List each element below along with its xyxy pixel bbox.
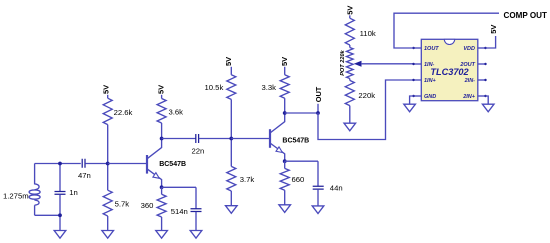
svg-text:2OUT: 2OUT [459,62,475,68]
power 5V (VDD) [489,25,498,34]
wire GND pin [410,96,414,104]
svg-text:COMP OUT: COMP OUT [504,11,548,20]
svg-text:POT 220k: POT 220k [340,49,346,75]
svg-text:OUT: OUT [314,86,323,102]
pin 1OUT [424,46,439,52]
wire input top node [35,163,81,165]
power 5V (3.6k) [156,85,165,94]
wire bottom-left node [35,214,60,216]
wire Q2 emitter to 44n [285,160,318,162]
svg-text:5V: 5V [489,25,498,34]
capacitor 1n [55,164,66,231]
svg-text:TLC3702: TLC3702 [430,67,469,77]
label 660 [292,175,305,184]
ground (2IN+) [482,104,494,112]
label 44n [330,184,343,193]
pin 2IN- [464,78,476,84]
svg-text:1IN+: 1IN+ [424,78,437,84]
pin VDD [463,46,475,52]
svg-text:22n: 22n [192,147,205,156]
svg-text:5V: 5V [102,85,111,94]
pin GND [424,94,436,100]
pin 1IN- [424,62,435,68]
svg-text:2IN-: 2IN- [464,78,476,84]
label 22n [192,147,205,156]
label 360 [141,201,154,210]
resistor 360 [157,187,166,230]
capacitor 22n [196,134,232,143]
resistor 3.6k [157,95,166,139]
power 5V (22.6k) [102,85,111,94]
junction base node 1 [106,162,110,166]
label 514n [171,207,188,216]
resistor 110k [345,15,354,47]
svg-text:GND: GND [424,94,436,100]
pin 1IN+ [424,78,437,84]
svg-text:47n: 47n [78,171,91,180]
junction OUT [316,111,320,115]
label 110k [360,29,376,38]
wire 2IN+ pin [486,96,489,104]
resistor 10.5k [227,67,236,139]
ground (GND pin) [404,104,416,112]
svg-text:2IN+: 2IN+ [462,94,476,100]
resistor 3.7k [227,139,236,206]
svg-text:22.6k: 22.6k [114,108,133,117]
power 5V (pot) [345,6,354,15]
svg-text:1IN-: 1IN- [424,62,435,68]
junction base node 2 [229,137,233,141]
svg-text:220k: 220k [358,91,375,100]
svg-text:1OUT: 1OUT [424,46,439,52]
label 3.3k [262,83,277,92]
svg-text:5V: 5V [156,85,165,94]
wire Q1 collector to 22n [162,138,196,140]
resistor 660 [280,161,289,205]
ground (360) [156,231,168,239]
resistor 22.6k [103,95,112,164]
svg-text:VDD: VDD [463,46,475,52]
svg-text:5V: 5V [224,57,233,66]
junction Q1 collector [160,137,164,141]
svg-text:3.3k: 3.3k [262,83,277,92]
pin 2OUT [459,62,475,68]
svg-text:110k: 110k [360,29,376,38]
resistor 3.3k [280,67,289,113]
junction Q2 emitter [283,159,287,163]
ground (pot) [344,123,356,131]
label 1n [69,188,78,197]
label 1.275m [3,191,29,200]
transistor Q2 BC547B [270,113,285,161]
wire Q1 emitter to 514n [162,186,196,188]
node OUT [314,86,323,113]
svg-text:BC547B: BC547B [282,138,309,145]
svg-text:1.275m: 1.275m [3,191,29,200]
op-amp U1 TLC3702 [412,39,486,100]
power 5V (10.5k) [224,57,233,66]
label 5.7k [115,200,130,209]
svg-text:44n: 44n [330,184,343,193]
transistor Q1 BC547B [147,139,162,188]
svg-text:5V: 5V [345,6,354,15]
svg-text:1n: 1n [69,188,78,197]
wire to Q1 base [108,163,147,165]
svg-text:BC547B: BC547B [159,161,186,168]
power 5V (3.3k) [280,57,289,66]
label TLC3702 [430,67,469,77]
ground (660) [279,205,291,213]
inductor 1.275m [29,164,40,216]
wire to Q2 base [231,138,270,140]
label POT 220k [340,49,346,75]
label 10.5k [205,83,224,92]
ground (tank) [54,231,66,239]
label 22.6k [114,108,133,117]
capacitor 47n [82,159,108,168]
node COMP OUT [504,11,548,20]
label 3.6k [169,108,184,117]
pin 2IN+ [462,94,476,100]
resistor 220k [345,79,354,124]
svg-text:360: 360 [141,201,154,210]
ground (514n) [190,231,202,239]
wire wiper to 1IN- [361,63,414,65]
wire OUT to 1IN+ [318,80,414,140]
label BC547B (Q2) [282,138,309,145]
svg-text:660: 660 [292,175,305,184]
label 47n [78,171,91,180]
label 220k [358,91,375,100]
capacitor 44n [313,161,324,206]
potentiometer POT 220k [347,48,362,79]
junction top-left [58,162,62,166]
ground (44n) [312,206,324,214]
label 3.7k [240,175,255,184]
svg-text:514n: 514n [171,207,188,216]
svg-text:5V: 5V [280,57,289,66]
capacitor 514n [191,187,202,230]
wire VDD to 5V [486,36,496,48]
wire 1OUT to COMP OUT [394,13,499,48]
junction Q2 collector [283,111,287,115]
junction bottom-left [58,213,62,217]
junction Q1 emitter [160,185,164,189]
svg-text:5.7k: 5.7k [115,200,130,209]
svg-text:3.7k: 3.7k [240,175,255,184]
label BC547B (Q1) [159,161,186,168]
resistor 5.7k [103,164,112,231]
svg-text:3.6k: 3.6k [169,108,184,117]
ground (3.7k) [226,206,238,214]
svg-text:10.5k: 10.5k [205,83,224,92]
ground (5.7k) [102,231,114,239]
wire collector to OUT [285,112,318,114]
